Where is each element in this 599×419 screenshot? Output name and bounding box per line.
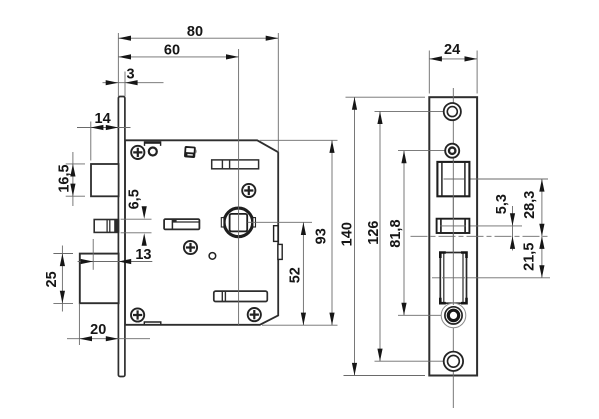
6.5 ext lines bbox=[121, 218, 152, 220]
ext latch front up bbox=[90, 122, 92, 161]
screw bottom-right bbox=[248, 308, 261, 321]
lock case body bbox=[125, 140, 278, 324]
screw bottom-left bbox=[131, 308, 144, 321]
screw upper-right bbox=[242, 184, 255, 197]
13 dim line bbox=[78, 261, 153, 263]
svg-text:5,3: 5,3 bbox=[494, 194, 510, 214]
dim 140 arrows bbox=[352, 97, 357, 110]
svg-text:60: 60 bbox=[164, 43, 180, 59]
ext 2nd hole centre bbox=[398, 150, 445, 152]
dim 28.3 arrows bbox=[539, 179, 544, 192]
dim 13 arrows (outside) bbox=[81, 259, 94, 264]
svg-text:140: 140 bbox=[339, 222, 355, 246]
dim 20 arrows bbox=[79, 336, 92, 341]
25 ticks bbox=[53, 253, 73, 255]
small circle below screw bbox=[209, 253, 216, 260]
small opening centre bbox=[437, 225, 523, 227]
16.5 ticks bbox=[66, 163, 85, 165]
3-dim tail line bbox=[103, 82, 164, 84]
ext hub centre bbox=[398, 314, 441, 316]
dim 14 arrows bbox=[91, 125, 104, 130]
svg-text:81,8: 81,8 bbox=[388, 219, 404, 247]
dim 52 arrows bbox=[301, 222, 306, 235]
svg-text:20: 20 bbox=[90, 322, 106, 338]
cylinder hub on plate bbox=[441, 303, 466, 328]
svg-text:21,5: 21,5 bbox=[522, 243, 538, 271]
long aux line bbox=[411, 235, 551, 237]
svg-text:16,5: 16,5 bbox=[57, 164, 73, 192]
latch bolt window bbox=[440, 253, 466, 304]
ext square opening centre bbox=[444, 178, 549, 180]
svg-text:3: 3 bbox=[127, 67, 135, 83]
60 dim line bbox=[118, 56, 238, 58]
screw lower-left area bbox=[184, 241, 197, 254]
25 dim line bbox=[61, 246, 63, 312]
svg-text:6,5: 6,5 bbox=[126, 189, 142, 209]
middle transfer bar bbox=[164, 219, 199, 229]
ext case right edge up bbox=[277, 33, 279, 152]
ext top hole centre bbox=[375, 110, 444, 112]
dim 126 arrows bbox=[377, 111, 382, 124]
dim 6.5 arrows (outside) bbox=[142, 206, 147, 219]
screw top-left bbox=[131, 146, 144, 159]
bottom tab on case edge bbox=[144, 322, 161, 324]
93 dim line bbox=[331, 140, 333, 325]
top screw hole bbox=[444, 103, 461, 120]
14-dim line bbox=[77, 127, 131, 129]
svg-text:14: 14 bbox=[95, 111, 111, 127]
24 ext lines bbox=[428, 51, 430, 94]
svg-text:52: 52 bbox=[288, 267, 304, 283]
deadbolt bbox=[80, 254, 119, 304]
dim 21.5 arrows bbox=[539, 236, 544, 249]
ext faceplate left edge up bbox=[117, 33, 119, 96]
svg-text:13: 13 bbox=[135, 247, 151, 263]
bottom screw hole bbox=[444, 352, 463, 371]
spindle square hole bbox=[230, 214, 248, 232]
126 dim line bbox=[379, 111, 381, 361]
ext faceplate right edge up bbox=[124, 72, 126, 97]
latch bolt bbox=[91, 164, 119, 196]
dim 24 arrows bbox=[429, 56, 442, 61]
81.8 dim line bbox=[403, 151, 405, 316]
hub side lugs bbox=[221, 218, 224, 227]
svg-text:80: 80 bbox=[187, 24, 203, 40]
svg-text:25: 25 bbox=[44, 271, 60, 287]
latch window centre bbox=[432, 277, 550, 279]
case top ext to right bbox=[260, 139, 338, 141]
svg-text:93: 93 bbox=[314, 228, 330, 244]
centre line through spindle (60 ext) bbox=[238, 49, 240, 325]
small square cam part bbox=[193, 149, 197, 153]
13 ext vertical bbox=[92, 239, 94, 270]
24 dim line bbox=[429, 58, 477, 60]
square spindle opening bbox=[437, 162, 469, 196]
small opening centre line bbox=[440, 225, 466, 227]
svg-text:126: 126 bbox=[366, 221, 382, 245]
lower slider bar bbox=[214, 291, 267, 301]
plate vertical centre line (over openings) bbox=[452, 160, 454, 305]
svg-text:24: 24 bbox=[444, 42, 460, 58]
right edge piece lower bbox=[278, 244, 282, 259]
5.3 dim line bbox=[512, 206, 514, 251]
dim 80 arrows bbox=[118, 36, 131, 41]
20 ext vertical bbox=[78, 303, 80, 345]
latch window centre line bbox=[442, 277, 465, 279]
spindle hub bbox=[224, 208, 253, 237]
second hole bbox=[445, 144, 459, 158]
28.3 dim line bbox=[541, 179, 543, 236]
dim 5.3 arrows (outside) bbox=[510, 213, 515, 226]
strike plate outline bbox=[429, 97, 477, 375]
dim 93 arrows bbox=[329, 140, 334, 153]
20 dim line bbox=[67, 338, 150, 340]
ext plate top to left bbox=[346, 96, 426, 98]
svg-text:28,3: 28,3 bbox=[522, 191, 538, 219]
right edge piece upper bbox=[274, 226, 278, 242]
auxiliary bolt bbox=[94, 220, 118, 233]
plate centre line vertical bbox=[452, 88, 454, 408]
ext plate bottom to left bbox=[344, 375, 426, 377]
80 dim line bbox=[118, 37, 278, 39]
dim 3 arrows (outside) bbox=[106, 80, 119, 85]
upper slider bar bbox=[212, 160, 259, 169]
small auxiliary opening bbox=[437, 219, 470, 233]
52 dim line bbox=[302, 222, 304, 325]
dim 25 arrows bbox=[60, 254, 65, 267]
spindle centre ext to right bbox=[248, 221, 313, 223]
140 dim line bbox=[354, 97, 356, 375]
faceplate (forend bar) bbox=[118, 97, 125, 377]
ext bottom hole centre bbox=[375, 360, 444, 362]
dim 16.5 arrows bbox=[70, 164, 75, 177]
square opening centre cross bbox=[444, 178, 465, 180]
ring next to top-left screw bbox=[149, 148, 157, 156]
16.5 dim line bbox=[72, 152, 74, 206]
21.5 dim line bbox=[541, 236, 543, 277]
thin ext / centre lines, right view bbox=[344, 51, 551, 409]
top tab on case edge bbox=[145, 142, 161, 146]
case bottom ext to right bbox=[262, 324, 338, 326]
dim 81.8 arrows bbox=[401, 151, 406, 164]
centre lines redrawn over openings bbox=[440, 160, 466, 305]
dim 60 arrows bbox=[118, 54, 131, 59]
